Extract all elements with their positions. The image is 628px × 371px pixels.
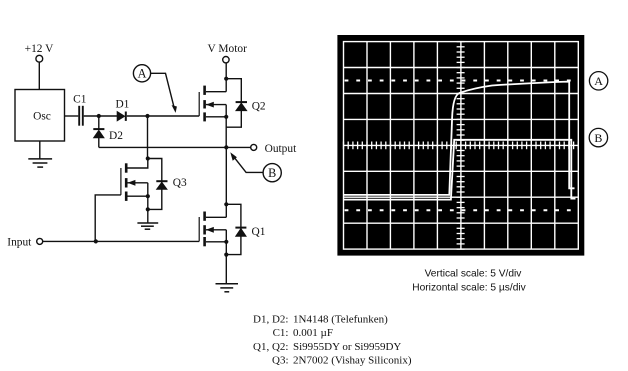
V Motor terminal	[223, 57, 229, 63]
svg-text:Input: Input	[7, 236, 32, 248]
svg-text:V Motor: V Motor	[208, 43, 248, 55]
node (Q1 source)	[224, 240, 228, 244]
+12V terminal	[36, 55, 43, 62]
node (C1/D1/D2 junction)	[97, 114, 101, 118]
ground (Q3)	[137, 223, 158, 229]
svg-text:2N7002 (Vishay Siliconix): 2N7002 (Vishay Siliconix)	[293, 355, 412, 367]
wire Q2 source to output	[225, 105, 227, 148]
+12 V label	[25, 43, 54, 55]
wire +12V to Osc	[38, 62, 40, 90]
diode D2	[93, 129, 104, 138]
wire Q1 to ground	[225, 255, 227, 284]
wire input bus	[43, 240, 200, 242]
svg-text:Q3: Q3	[173, 177, 187, 189]
graticule minor ticks vertical axis	[457, 42, 465, 250]
oscilloscope graticule	[344, 42, 579, 250]
svg-text:Horizontal scale: 5 µs/div: Horizontal scale: 5 µs/div	[412, 283, 526, 294]
body diode of Q3	[156, 181, 167, 189]
transistor Q3	[121, 159, 148, 201]
body diode of Q2	[236, 102, 247, 111]
transistor Q1	[199, 212, 226, 247]
graticule minor ticks horizontal axis	[344, 142, 579, 150]
label A (scope)	[589, 72, 607, 90]
svg-text:Output: Output	[265, 143, 297, 155]
node (Q3 drain/diode tap)	[146, 156, 150, 160]
svg-text:+12 V: +12 V	[25, 43, 54, 55]
node (Q3 source junction)	[146, 194, 150, 198]
body diode of Q1	[235, 228, 246, 237]
node (Q2 source/body)	[224, 115, 228, 119]
oscilloscope screen bezel	[337, 35, 584, 256]
node (Q2 body diode top)	[224, 77, 228, 81]
label B (scope)	[589, 128, 607, 146]
wire output bus	[99, 146, 251, 148]
svg-text:Q3:: Q3:	[272, 355, 289, 367]
svg-text:Vertical scale: 5 V/div: Vertical scale: 5 V/div	[425, 269, 523, 280]
svg-text:0.001 µF: 0.001 µF	[293, 327, 333, 339]
diode D1	[117, 112, 126, 121]
wire Q1 body to source	[225, 230, 227, 255]
output terminal	[251, 144, 257, 150]
callout B leader	[232, 154, 263, 172]
node (Q1 diode top)	[224, 202, 228, 206]
V Motor label	[208, 43, 248, 55]
oscillator U Osc	[15, 90, 65, 142]
wire Q3 to ground	[147, 209, 149, 223]
graticule dashed marker rows	[345, 81, 579, 211]
wire output node to Q1 drain	[225, 147, 227, 217]
capacitor C1	[79, 106, 83, 126]
callout B circle	[263, 164, 281, 182]
wire Osc bottom to ground	[39, 141, 41, 159]
svg-text:A: A	[594, 74, 603, 88]
node (input / Q3 gate tap)	[94, 239, 98, 243]
svg-text:Q1, Q2:: Q1, Q2:	[253, 341, 288, 353]
transistor Q2	[199, 86, 226, 122]
svg-text:D1: D1	[115, 99, 129, 111]
parts list	[253, 313, 412, 366]
svg-text:D1, D2:: D1, D2:	[253, 313, 288, 325]
wire Q3 drain to gate bus	[147, 116, 149, 159]
ground (Q1)	[216, 284, 239, 292]
node (Q1 diode bottom)	[224, 253, 228, 257]
wire C1 to D1	[84, 115, 118, 117]
body diode of Q3 branch	[148, 159, 162, 210]
callout A leader	[151, 73, 175, 108]
wire D1 to Q2 gate	[127, 115, 199, 117]
svg-text:C1: C1	[73, 94, 87, 106]
body diode of Q1 branch	[226, 204, 241, 254]
svg-text:Q1: Q1	[252, 226, 266, 238]
wire Q3 source down	[147, 196, 149, 209]
node (Q3 diode bottom)	[146, 207, 150, 211]
svg-text:D2: D2	[109, 130, 123, 142]
node (gate bus / Q3 drain tap)	[145, 114, 149, 118]
svg-text:1N4148 (Telefunken): 1N4148 (Telefunken)	[293, 313, 388, 325]
svg-text:B: B	[268, 166, 276, 180]
wire Osc to C1	[65, 115, 79, 117]
svg-text:Q2: Q2	[252, 101, 266, 113]
svg-text:Osc: Osc	[33, 110, 51, 122]
wire V Motor to Q2 drain	[225, 63, 227, 92]
input terminal	[37, 238, 43, 244]
wire Q3 gate lead	[95, 195, 121, 242]
svg-text:Si9955DY or Si9959DY: Si9955DY or Si9959DY	[293, 341, 401, 353]
trace A	[344, 82, 575, 195]
ground (Osc)	[28, 159, 52, 167]
diode D2 branch wire	[98, 116, 100, 129]
svg-text:A: A	[138, 67, 147, 81]
node (output junction)	[224, 145, 228, 149]
body diode of Q2 branch	[226, 79, 241, 128]
svg-text:B: B	[594, 131, 602, 145]
trace B	[344, 140, 576, 200]
callout A circle	[133, 65, 150, 82]
svg-text:C1:: C1:	[273, 327, 289, 339]
Input label	[7, 236, 32, 248]
